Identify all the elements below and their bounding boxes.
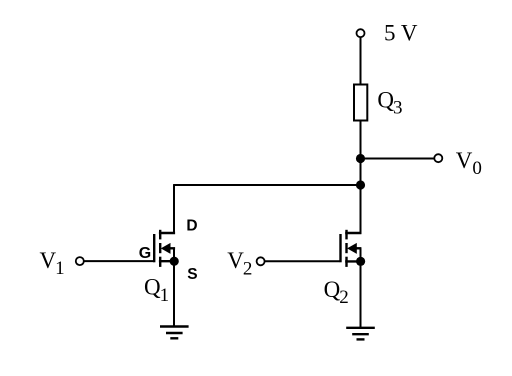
wire [360, 121, 362, 235]
node (output) [356, 154, 365, 163]
transistor Q2 [341, 230, 362, 328]
svg-text:G: G [139, 245, 151, 262]
wire (V1 to gate) [84, 260, 153, 262]
Q1 source-body dot [170, 257, 179, 266]
transistor Q3 (load, drawn as box) [354, 85, 367, 121]
svg-text:S: S [187, 266, 197, 283]
terminal 5V [357, 29, 365, 37]
svg-text:D: D [186, 218, 197, 235]
Q1 body arrow [161, 243, 171, 254]
svg-text:5 V: 5 V [384, 20, 418, 45]
wire to V0 [361, 158, 435, 160]
Q2 body arrow [347, 243, 357, 254]
wire [174, 184, 361, 186]
ground (Q1 source) [160, 327, 189, 339]
ground (Q2 source) [346, 328, 375, 340]
transistor Q1 [154, 230, 175, 327]
Q2 source-body dot [356, 257, 365, 266]
wire (Q1 drain lead) [173, 184, 175, 234]
node (junction to gates branch) [356, 180, 365, 189]
wire [360, 37, 362, 85]
terminal V2 [257, 257, 265, 265]
wire (V2 to gate) [265, 260, 340, 262]
terminal V0 [434, 154, 442, 162]
terminal V1 [76, 257, 84, 265]
